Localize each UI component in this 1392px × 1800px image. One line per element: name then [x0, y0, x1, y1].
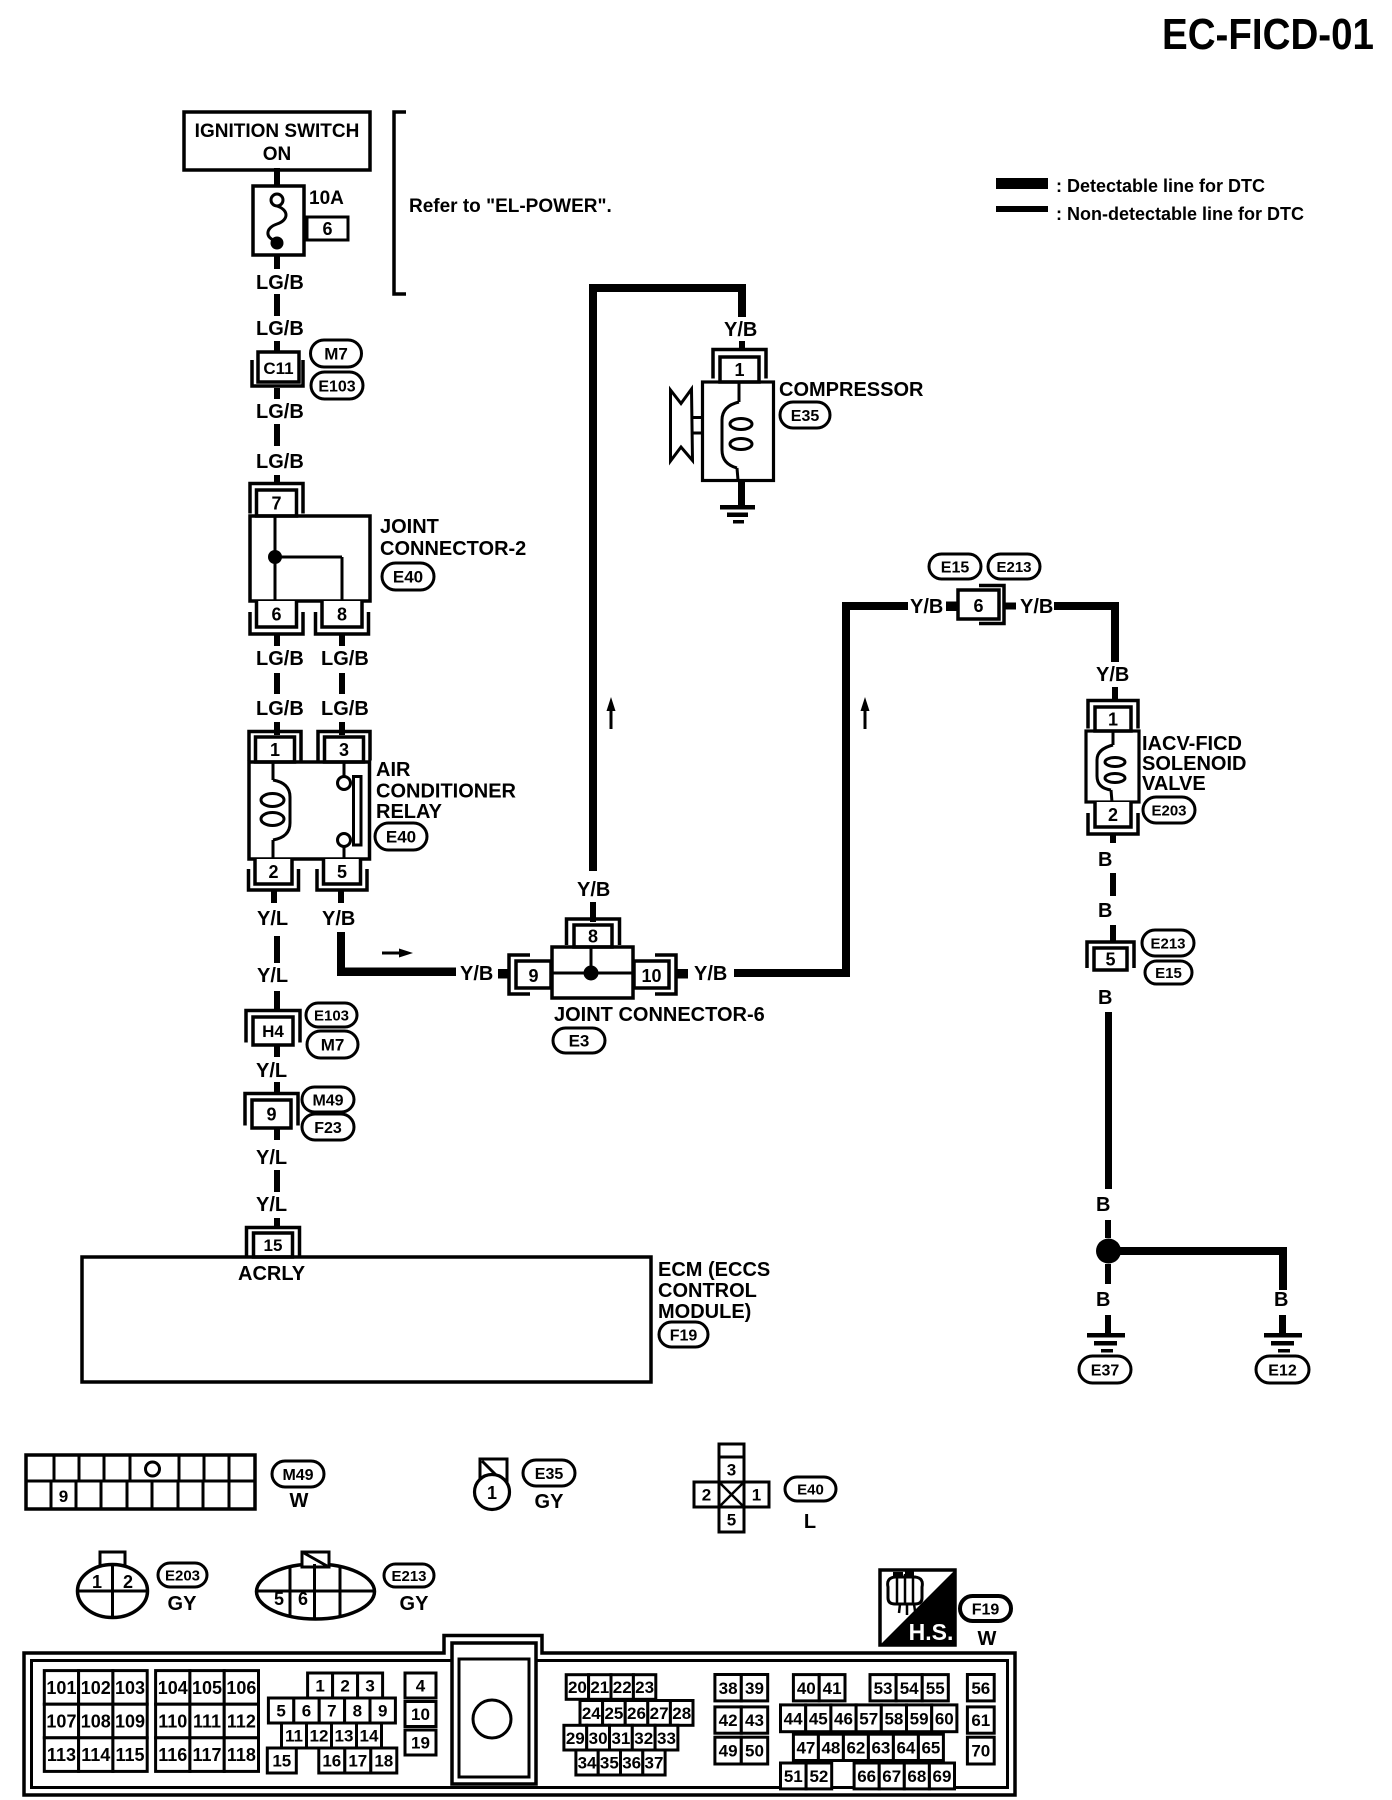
svg-text:B: B: [1096, 1289, 1110, 1311]
svg-text:1: 1: [270, 740, 280, 760]
svg-text:W: W: [978, 1628, 997, 1650]
svg-text:53: 53: [874, 1679, 893, 1698]
svg-text:M7: M7: [321, 1036, 345, 1055]
svg-text:47: 47: [796, 1738, 815, 1757]
svg-text:M49: M49: [282, 1467, 313, 1484]
svg-text:F19: F19: [972, 1601, 1000, 1618]
joint connector-2 pin 6: [250, 612, 303, 634]
svg-text:LG/B: LG/B: [321, 648, 369, 670]
svg-text:9: 9: [266, 1104, 276, 1124]
svg-text:Refer to "EL-POWER".: Refer to "EL-POWER".: [409, 196, 612, 217]
wire Y/B into connector 6 left: [846, 602, 908, 610]
svg-text:115: 115: [116, 1745, 145, 1765]
ECM pins 1-19 group: [308, 1673, 333, 1698]
svg-text:15: 15: [264, 1236, 283, 1255]
joint connector-6 pin 9: [509, 955, 530, 994]
connector H4 E103 M7: [246, 1011, 300, 1043]
svg-text:2: 2: [123, 1572, 133, 1592]
svg-text:JOINT CONNECTOR-6: JOINT CONNECTOR-6: [554, 1004, 765, 1026]
svg-text:103: 103: [115, 1678, 145, 1698]
svg-text:9: 9: [59, 1487, 68, 1506]
svg-text:LG/B: LG/B: [256, 272, 304, 294]
svg-text:30: 30: [589, 1729, 608, 1748]
svg-text:23: 23: [635, 1678, 654, 1697]
svg-text:18: 18: [374, 1752, 393, 1771]
svg-text:IACV-FICD: IACV-FICD: [1142, 733, 1242, 755]
svg-text:Y/B: Y/B: [694, 963, 727, 985]
svg-text:E40: E40: [797, 1481, 824, 1498]
arrow right on Y/B wire: [382, 952, 403, 955]
svg-text:17: 17: [348, 1752, 367, 1771]
A/C relay pin 5: [317, 869, 367, 890]
wire B junction to E37 ground: [1105, 1264, 1111, 1284]
joint connector-6 junction dot: [584, 966, 599, 981]
svg-text:CONNECTOR-2: CONNECTOR-2: [380, 538, 526, 560]
svg-text:11: 11: [285, 1727, 303, 1746]
svg-text:117: 117: [193, 1745, 222, 1765]
connector face E40 cross: [719, 1444, 744, 1457]
svg-text:E103: E103: [318, 378, 355, 395]
svg-text:10A: 10A: [309, 188, 344, 209]
svg-text:1: 1: [734, 360, 744, 380]
svg-text:32: 32: [634, 1729, 653, 1748]
svg-text:60: 60: [935, 1709, 954, 1728]
svg-text:58: 58: [884, 1709, 903, 1728]
svg-text:46: 46: [834, 1709, 853, 1728]
svg-text:109: 109: [115, 1711, 145, 1731]
svg-text:9: 9: [378, 1702, 387, 1721]
svg-text:12: 12: [310, 1727, 329, 1746]
svg-text:37: 37: [644, 1754, 663, 1773]
svg-text:114: 114: [81, 1745, 110, 1765]
IACV-FICD solenoid valve E203 box: [1086, 731, 1139, 802]
svg-text:Y/B: Y/B: [910, 596, 943, 618]
svg-text:113: 113: [47, 1745, 76, 1765]
svg-text:GY: GY: [535, 1491, 565, 1513]
svg-text:E12: E12: [1268, 1362, 1297, 1379]
svg-text:8: 8: [353, 1702, 362, 1721]
svg-text:B: B: [1098, 987, 1112, 1009]
wire LG/B fuse to C11: [274, 255, 280, 269]
svg-text:40: 40: [797, 1679, 816, 1698]
svg-text:CONDITIONER: CONDITIONER: [376, 781, 517, 803]
svg-text:ACRLY: ACRLY: [238, 1263, 306, 1285]
wire Y/B connector 6 right to solenoid: [1004, 603, 1016, 610]
compressor clutch symbol: [671, 389, 693, 461]
joint connector-6 E3 box: [552, 947, 633, 998]
svg-text:E213: E213: [391, 1568, 426, 1585]
svg-text:19: 19: [411, 1734, 430, 1753]
svg-text:57: 57: [859, 1709, 878, 1728]
svg-text:5: 5: [1105, 949, 1115, 969]
svg-text:E103: E103: [314, 1007, 349, 1024]
svg-text:42: 42: [719, 1711, 738, 1730]
svg-text:64: 64: [896, 1738, 915, 1757]
svg-text:JOINT: JOINT: [380, 516, 439, 538]
ECM pins 101-118 grids: [44, 1671, 78, 1705]
svg-text:35: 35: [600, 1754, 619, 1773]
legend non-detectable line for DTC: [996, 206, 1048, 212]
svg-text:2: 2: [340, 1677, 349, 1696]
svg-text:24: 24: [582, 1704, 601, 1723]
svg-text:13: 13: [335, 1727, 354, 1746]
svg-text:AIR: AIR: [376, 759, 411, 781]
arrow up on right Y/B wire: [864, 707, 867, 729]
svg-text:14: 14: [360, 1727, 379, 1746]
svg-text:B: B: [1096, 1194, 1110, 1216]
svg-text:112: 112: [227, 1711, 256, 1731]
svg-text:2: 2: [268, 862, 278, 882]
svg-text:108: 108: [81, 1711, 111, 1731]
svg-text:6: 6: [973, 596, 983, 616]
svg-text:Y/B: Y/B: [724, 319, 757, 341]
svg-text:W: W: [290, 1490, 309, 1512]
svg-text:6: 6: [271, 604, 281, 624]
ECM pins 38-50 group: [715, 1675, 741, 1701]
svg-text:33: 33: [657, 1729, 676, 1748]
ECM connector outline: [24, 1636, 1015, 1796]
svg-text:F23: F23: [314, 1120, 342, 1137]
bracket refer to EL-POWER: [394, 112, 406, 294]
svg-text:Y/B: Y/B: [460, 963, 493, 985]
svg-text:55: 55: [926, 1679, 945, 1698]
svg-text:106: 106: [226, 1678, 256, 1698]
wire end arrow into pin 9: [498, 969, 510, 979]
svg-text:Y/L: Y/L: [256, 1060, 287, 1082]
connector face E213 oval: [257, 1564, 375, 1619]
svg-text:COMPRESSOR: COMPRESSOR: [779, 379, 924, 401]
svg-text:Y/B: Y/B: [577, 879, 610, 901]
joint connector-2 E40 box: [250, 516, 370, 601]
svg-text:70: 70: [971, 1742, 990, 1761]
connector C11 M7 E103: [252, 360, 303, 386]
svg-text:: Non-detectable line for DTC: : Non-detectable line for DTC: [1056, 204, 1304, 224]
svg-text:22: 22: [613, 1678, 632, 1697]
svg-text:63: 63: [871, 1738, 890, 1757]
svg-text:B: B: [1098, 849, 1112, 871]
svg-text:6: 6: [298, 1589, 308, 1609]
svg-text:15: 15: [272, 1752, 291, 1771]
svg-text:IGNITION SWITCH: IGNITION SWITCH: [195, 121, 360, 142]
connector face M49 grid: [26, 1455, 255, 1509]
svg-text:E35: E35: [535, 1466, 564, 1483]
svg-text:5: 5: [727, 1511, 736, 1530]
svg-text:E203: E203: [1151, 802, 1186, 819]
svg-text:3: 3: [339, 740, 349, 760]
ECM pins 56 61 70: [967, 1675, 994, 1701]
svg-text:1: 1: [487, 1483, 497, 1503]
svg-text:B: B: [1098, 900, 1112, 922]
svg-text:E213: E213: [1150, 935, 1185, 952]
svg-text:E3: E3: [569, 1032, 590, 1051]
joint connector-2 pin 8: [316, 612, 369, 634]
wire Y/L below relay pin 2: [271, 890, 277, 903]
svg-text:GY: GY: [400, 1593, 430, 1615]
ECM pin 15 ACRLY: [247, 1228, 300, 1256]
svg-text:107: 107: [46, 1711, 76, 1731]
svg-text:E35: E35: [791, 408, 820, 425]
svg-text:21: 21: [590, 1678, 609, 1697]
A/C relay E40 box: [249, 762, 370, 859]
svg-text:E37: E37: [1091, 1362, 1120, 1379]
svg-text:RELAY: RELAY: [376, 801, 443, 823]
H.S. symbol F19: [880, 1570, 955, 1645]
svg-text:F19: F19: [670, 1327, 698, 1344]
svg-text:8: 8: [588, 926, 598, 946]
junction dot B wires: [1096, 1239, 1121, 1264]
A/C relay switch contact: [343, 762, 346, 776]
svg-text:Y/B: Y/B: [1096, 664, 1129, 686]
ECM pins 20-37 group: [566, 1675, 588, 1700]
svg-text:SOLENOID: SOLENOID: [1142, 753, 1246, 775]
svg-text:43: 43: [745, 1711, 764, 1730]
wire LG/B C11 to joint connector-2: [274, 388, 280, 399]
svg-text:B: B: [1274, 1289, 1288, 1311]
svg-text:CONTROL: CONTROL: [658, 1280, 757, 1302]
compressor E35 box: [703, 382, 774, 481]
connector 6 E15 E213 ovals: [929, 554, 981, 579]
solenoid coil: [1112, 731, 1115, 745]
svg-text:L: L: [804, 1511, 816, 1533]
svg-text:61: 61: [971, 1711, 990, 1730]
svg-text:104: 104: [158, 1678, 188, 1698]
compressor ground: [738, 481, 745, 506]
svg-text:101: 101: [46, 1678, 76, 1698]
svg-text:7: 7: [271, 493, 281, 513]
svg-text:16: 16: [322, 1752, 341, 1771]
connector face E203 oval: [100, 1552, 125, 1566]
svg-text:25: 25: [604, 1704, 623, 1723]
svg-text:116: 116: [158, 1745, 187, 1765]
svg-text:ON: ON: [263, 144, 292, 165]
svg-text:6: 6: [302, 1702, 311, 1721]
svg-text:36: 36: [622, 1754, 641, 1773]
svg-text:28: 28: [672, 1704, 691, 1723]
svg-text:M7: M7: [324, 345, 348, 364]
svg-text:LG/B: LG/B: [256, 451, 304, 473]
wire Y/B top horizontal to compressor: [589, 284, 746, 292]
connector 6 box: [958, 590, 999, 619]
svg-text:66: 66: [857, 1767, 876, 1786]
svg-text:M49: M49: [312, 1092, 343, 1109]
svg-text:E213: E213: [996, 559, 1031, 576]
svg-text:1: 1: [315, 1677, 324, 1696]
svg-text:31: 31: [611, 1729, 630, 1748]
svg-text:MODULE): MODULE): [658, 1301, 751, 1323]
A/C relay coil: [272, 762, 275, 780]
svg-text:39: 39: [745, 1679, 764, 1698]
svg-text:H.S.: H.S.: [909, 1619, 954, 1645]
svg-text:3: 3: [365, 1677, 374, 1696]
svg-text:68: 68: [907, 1767, 926, 1786]
arrow up on compressor wire: [610, 707, 613, 729]
svg-text:Y/L: Y/L: [257, 965, 288, 987]
svg-text:52: 52: [809, 1767, 828, 1786]
wire Y/B into compressor pin 1: [738, 284, 746, 317]
ECM (ECCS control module) box F19: [82, 1257, 651, 1382]
svg-text:67: 67: [882, 1767, 901, 1786]
svg-text:50: 50: [745, 1742, 764, 1761]
A/C relay pin 3: [318, 732, 370, 761]
svg-text:8: 8: [337, 604, 347, 624]
svg-text:105: 105: [192, 1678, 222, 1698]
wire LG/B pin6 to relay pin1: [274, 634, 280, 646]
compressor pin 1: [713, 350, 766, 379]
svg-text:LG/B: LG/B: [321, 698, 369, 720]
compressor coil: [738, 382, 741, 402]
svg-text:26: 26: [627, 1704, 646, 1723]
wire Y/L to H4: [274, 936, 280, 963]
svg-text:1: 1: [92, 1572, 102, 1592]
wire ignition to fuse: [274, 168, 280, 186]
svg-text:E40: E40: [393, 568, 423, 587]
svg-text:69: 69: [932, 1767, 951, 1786]
svg-text:27: 27: [650, 1704, 669, 1723]
joint connector-2 junction dot: [268, 550, 282, 564]
svg-text:34: 34: [578, 1754, 597, 1773]
svg-text:102: 102: [81, 1678, 111, 1698]
svg-text:LG/B: LG/B: [256, 401, 304, 423]
joint connector-6 pin 10: [655, 955, 676, 994]
fuse 10A 6: [253, 186, 304, 255]
joint connector-2 pin 7: [250, 484, 303, 514]
wire Y/B below relay pin 5: [338, 890, 344, 903]
svg-text:59: 59: [910, 1709, 929, 1728]
svg-text:EC-FICD-01: EC-FICD-01: [1162, 10, 1374, 59]
wire B junction to E12 ground: [1108, 1247, 1283, 1255]
svg-text:VALVE: VALVE: [1142, 773, 1206, 795]
ECM connector bolt hole: [452, 1643, 536, 1784]
ground E12: [1264, 1333, 1302, 1338]
solenoid valve pin 1: [1088, 701, 1138, 729]
svg-text:1: 1: [752, 1486, 761, 1505]
svg-text:E40: E40: [386, 828, 416, 847]
wire Y/B relay pin5 down and right to joint connector-6 pin 9: [337, 932, 345, 972]
svg-text:51: 51: [784, 1767, 803, 1786]
svg-text:38: 38: [719, 1679, 738, 1698]
svg-text:5: 5: [337, 862, 347, 882]
wire Y/B right vertical up to connector 6: [842, 602, 850, 977]
solenoid valve pin 2: [1088, 813, 1138, 834]
svg-text:62: 62: [846, 1738, 865, 1757]
svg-text:LG/B: LG/B: [256, 318, 304, 340]
svg-text:111: 111: [193, 1711, 221, 1731]
svg-text:H4: H4: [262, 1022, 284, 1041]
svg-text:7: 7: [327, 1702, 336, 1721]
wire LG/B pin8 to relay pin3: [339, 634, 345, 646]
svg-text:1: 1: [1108, 709, 1118, 729]
svg-text:45: 45: [809, 1709, 828, 1728]
svg-text:C11: C11: [263, 359, 293, 378]
svg-text:E15: E15: [1155, 965, 1182, 982]
svg-text:Y/B: Y/B: [322, 908, 355, 930]
A/C relay pin 1: [249, 732, 301, 761]
A/C relay pin 2: [249, 869, 299, 890]
svg-text:E203: E203: [165, 1567, 200, 1584]
connector 5 E213 E15: [1087, 942, 1134, 968]
svg-text:41: 41: [823, 1679, 842, 1698]
svg-text:LG/B: LG/B: [256, 648, 304, 670]
svg-text:2: 2: [1108, 805, 1118, 825]
svg-text:5: 5: [274, 1589, 284, 1609]
svg-text:118: 118: [227, 1745, 256, 1765]
svg-text:4: 4: [416, 1677, 426, 1696]
svg-text:2: 2: [702, 1486, 711, 1505]
svg-text:49: 49: [719, 1742, 738, 1761]
legend detectable line for DTC: [996, 178, 1048, 189]
svg-text:GY: GY: [168, 1593, 198, 1615]
svg-text:5: 5: [276, 1702, 285, 1721]
svg-text:Y/L: Y/L: [256, 1147, 287, 1169]
wire B below solenoid: [1110, 834, 1116, 843]
svg-text:: Detectable line for DTC: : Detectable line for DTC: [1056, 176, 1265, 196]
connector face E35 circle: [480, 1459, 507, 1486]
svg-text:65: 65: [921, 1738, 940, 1757]
svg-text:6: 6: [322, 219, 332, 239]
svg-text:Y/B: Y/B: [1020, 596, 1053, 618]
svg-text:10: 10: [411, 1705, 430, 1724]
wire Y/B pin 10 to right vertical: [676, 969, 688, 979]
ground E37: [1087, 1333, 1125, 1338]
svg-text:3: 3: [727, 1461, 736, 1480]
ignition switch box: [184, 112, 370, 170]
svg-text:Y/L: Y/L: [257, 908, 288, 930]
ECM pins 40-69 group: [793, 1675, 819, 1701]
svg-text:20: 20: [568, 1678, 587, 1697]
svg-text:Y/L: Y/L: [256, 1194, 287, 1216]
svg-text:29: 29: [566, 1729, 585, 1748]
svg-text:ECM (ECCS: ECM (ECCS: [658, 1259, 770, 1281]
svg-text:E15: E15: [941, 559, 970, 576]
wire Y/B vertical down to joint connector-6 pin 8: [589, 284, 597, 871]
svg-text:56: 56: [971, 1679, 990, 1698]
svg-text:110: 110: [158, 1711, 187, 1731]
svg-text:54: 54: [900, 1679, 919, 1698]
svg-text:44: 44: [784, 1709, 803, 1728]
svg-text:48: 48: [821, 1738, 840, 1757]
svg-text:10: 10: [641, 966, 661, 986]
svg-text:9: 9: [528, 966, 538, 986]
svg-text:LG/B: LG/B: [256, 698, 304, 720]
connector 9 M49 F23: [245, 1094, 298, 1126]
